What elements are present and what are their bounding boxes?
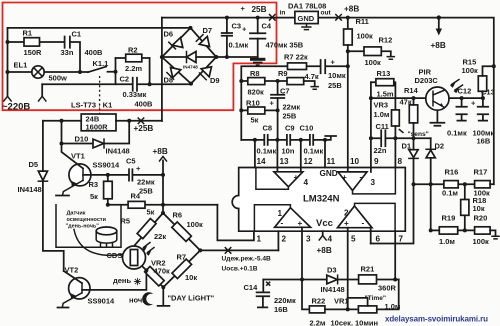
svg-text:R3: R3 <box>89 180 99 189</box>
wire: +25V vertical from bridge left corner <box>161 18 163 121</box>
junction dots mains <box>6 40 10 44</box>
svg-text:C9: C9 <box>285 124 295 133</box>
svg-text:1: 1 <box>278 209 283 218</box>
pin 13 <box>276 140 278 172</box>
resistor R2 <box>116 57 150 59</box>
svg-text:1600R: 1600R <box>86 123 109 132</box>
svg-text:R17: R17 <box>474 168 488 177</box>
pin 3 <box>301 227 303 279</box>
svg-text:+8В: +8В <box>431 41 446 50</box>
sensor cylinder <box>96 231 117 243</box>
resistor R7 <box>241 66 320 140</box>
pin 8 <box>394 138 396 167</box>
svg-text:10к: 10к <box>473 204 485 213</box>
svg-text:"sens": "sens" <box>408 131 429 138</box>
svg-text:10: 10 <box>350 157 360 166</box>
svg-text:D1: D1 <box>402 142 412 151</box>
switch K1.1 <box>88 67 116 73</box>
transistor VT2 SS9014 <box>69 278 90 299</box>
svg-text:4.7к: 4.7к <box>305 72 319 81</box>
svg-text:12: 12 <box>304 157 314 166</box>
svg-text:D10: D10 <box>75 135 89 144</box>
svg-text:+: + <box>241 4 246 13</box>
capacitor C12 <box>456 98 466 121</box>
svg-text:"день-ночь": "день-ночь" <box>66 224 100 230</box>
svg-text:33n: 33n <box>61 48 74 57</box>
pin 11 <box>324 140 326 168</box>
svg-text:D2: D2 <box>435 142 445 151</box>
+8V feed arrow <box>437 15 441 19</box>
op-amp U1.4 <box>274 172 303 187</box>
svg-text:10мин: 10мин <box>355 319 378 326</box>
ground (VT2 emitter) <box>58 307 69 309</box>
svg-text:D5: D5 <box>29 160 39 169</box>
svg-text:D9: D9 <box>210 76 220 85</box>
pin 1 <box>217 205 254 241</box>
connector X after out <box>336 15 342 21</box>
svg-text:100к: 100к <box>462 66 479 75</box>
diode D6 <box>173 38 183 48</box>
pin 14 <box>254 140 256 168</box>
svg-text:+25В: +25В <box>134 124 154 133</box>
mains plug prongs ~220B <box>4 96 11 101</box>
potentiometer VR1 <box>358 306 376 313</box>
resistor R18 <box>464 184 466 230</box>
svg-text:+: + <box>294 173 299 182</box>
svg-text:D6: D6 <box>164 30 174 39</box>
wire: top AC wire to bridge top <box>8 27 191 29</box>
svg-text:25В: 25В <box>139 187 153 196</box>
diode D3 <box>263 279 398 281</box>
capacitor C7 <box>277 81 279 140</box>
svg-text:2: 2 <box>344 209 349 218</box>
svg-text:6: 6 <box>376 235 381 244</box>
relay K1 coil <box>81 114 116 131</box>
svg-text:5к: 5к <box>90 192 98 201</box>
svg-text:R8: R8 <box>250 69 260 78</box>
svg-text:GND: GND <box>320 169 338 178</box>
svg-text:C8: C8 <box>263 124 273 133</box>
svg-text:3: 3 <box>371 178 376 187</box>
svg-text:Vcc: Vcc <box>316 218 333 229</box>
svg-text:5к: 5к <box>251 116 259 125</box>
relay actuator dashed link <box>99 76 101 114</box>
resistor R6 <box>172 222 192 242</box>
svg-text:470мк 35В: 470мк 35В <box>266 41 304 50</box>
svg-text:C2: C2 <box>120 75 130 84</box>
svg-text:400В: 400В <box>85 48 104 57</box>
svg-text:R21: R21 <box>361 265 375 274</box>
photoresistor CDS <box>123 246 146 269</box>
svg-text:-: - <box>360 172 363 181</box>
svg-text:0.33мк: 0.33мк <box>123 90 147 99</box>
svg-text:IN4148: IN4148 <box>106 147 130 156</box>
svg-text:47к: 47к <box>400 98 412 107</box>
wire: R1-C1 snubber branch <box>8 42 81 72</box>
diode D1 <box>371 138 414 243</box>
wire: VT1 base node <box>83 174 163 176</box>
svg-text:день: день <box>113 276 131 285</box>
resistor R13 <box>371 82 396 110</box>
svg-text:R20: R20 <box>474 214 488 223</box>
svg-text:Датчик: Датчик <box>67 211 86 217</box>
svg-text:10n: 10n <box>282 147 295 156</box>
resistor R15 <box>478 76 486 91</box>
svg-text:VR1: VR1 <box>334 297 349 306</box>
svg-text:16В: 16В <box>477 137 491 146</box>
diode D10 <box>62 121 130 144</box>
op-amp U1.2 <box>338 206 373 228</box>
resistor R7b bridge <box>172 259 192 279</box>
svg-text:R6: R6 <box>173 211 183 220</box>
resistor R10 <box>239 108 243 112</box>
svg-text:~220В: ~220В <box>2 102 30 113</box>
wire: bridge minus to filter ground <box>216 56 257 58</box>
svg-text:✳: ✳ <box>134 277 143 288</box>
svg-text:R13: R13 <box>377 69 391 78</box>
diode D8 <box>171 68 181 78</box>
svg-text:+8В: +8В <box>344 5 359 14</box>
capacitor C13 <box>478 98 488 121</box>
capacitor C8 <box>264 135 267 145</box>
resistor R5 <box>137 219 156 239</box>
svg-text:4: 4 <box>328 235 333 244</box>
svg-text:22мк: 22мк <box>137 178 155 187</box>
svg-text:R11: R11 <box>356 17 369 26</box>
svg-text:R1: R1 <box>23 29 33 38</box>
svg-text:R12: R12 <box>379 36 393 45</box>
svg-text:R7 22к: R7 22к <box>284 53 308 62</box>
resistor R4 <box>108 204 218 206</box>
svg-text:+: + <box>342 173 347 182</box>
svg-text:VR3: VR3 <box>374 101 389 110</box>
svg-text:150R: 150R <box>24 48 43 57</box>
svg-text:25В: 25В <box>283 112 297 121</box>
svg-text:8: 8 <box>398 157 403 166</box>
svg-text:+: + <box>344 219 349 228</box>
pin 2 <box>277 231 279 250</box>
svg-text:500w: 500w <box>49 74 68 83</box>
svg-text:400В: 400В <box>135 100 154 109</box>
svg-text:-: - <box>281 218 284 227</box>
svg-text:R22: R22 <box>312 297 326 306</box>
svg-text:2.2m: 2.2m <box>125 64 142 73</box>
svg-text:C7: C7 <box>280 87 290 96</box>
day-night bridge: top node <box>135 213 201 287</box>
light arrows into PIR <box>452 80 463 91</box>
svg-text:10к: 10к <box>185 273 197 282</box>
svg-text:470к: 470к <box>154 267 171 276</box>
svg-text:2.2м: 2.2м <box>310 319 326 326</box>
light arrows into CDS <box>144 243 155 253</box>
connector X marks on +25V rail <box>270 15 276 21</box>
svg-text:22к: 22к <box>154 232 166 241</box>
svg-text:LM324N: LM324N <box>303 194 340 205</box>
wire: lamp line <box>8 71 89 73</box>
svg-text:R14: R14 <box>404 86 419 95</box>
wire: comparator output to bridge with X <box>200 249 278 251</box>
op-amp U1.3 <box>338 172 367 191</box>
svg-text:+8В: +8В <box>153 147 168 156</box>
resistor R8 <box>239 79 243 83</box>
capacitor C14 <box>257 280 270 308</box>
svg-text:14: 14 <box>257 157 267 166</box>
svg-text:D203C: D203C <box>415 76 439 85</box>
op-amp IC U1 LM324N body <box>232 168 405 232</box>
svg-text:13: 13 <box>280 157 290 166</box>
svg-text:-: - <box>278 172 281 181</box>
wire: R13 left to pin9 column <box>370 82 372 167</box>
svg-text:100к: 100к <box>357 32 374 41</box>
svg-text:+: + <box>471 99 476 108</box>
resistor R11 <box>346 16 350 20</box>
svg-text:9: 9 <box>374 157 379 166</box>
svg-text:"DAY LiGHT": "DAY LiGHT" <box>168 294 215 303</box>
svg-text:+: + <box>331 58 336 67</box>
svg-text:R16: R16 <box>445 168 459 177</box>
wire: R14/PIR line <box>371 97 426 99</box>
node: phase rail left vertical <box>7 28 9 97</box>
svg-text:100к: 100к <box>187 220 204 229</box>
resistor R3 <box>107 175 109 181</box>
svg-text:5к: 5к <box>147 208 155 217</box>
svg-text:C11: C11 <box>376 122 389 131</box>
wire: PIR right to caps <box>449 97 483 99</box>
pin 6 <box>370 228 372 244</box>
svg-text:4: 4 <box>304 178 309 187</box>
svg-text:IN4148: IN4148 <box>321 285 345 294</box>
svg-text:C5: C5 <box>126 157 136 166</box>
ground (PIR) <box>430 110 444 126</box>
svg-text:освещенности: освещенности <box>67 217 106 223</box>
svg-text:"Time": "Time" <box>365 295 387 302</box>
svg-text:R19: R19 <box>442 214 456 223</box>
capacitor C4 <box>257 18 259 57</box>
zener IN4748 <box>162 56 216 58</box>
photo sensor box <box>56 205 121 248</box>
resistor R16 <box>414 183 475 185</box>
svg-text:+: + <box>136 164 141 173</box>
capacitor C5 <box>129 169 132 180</box>
svg-text:1.0м: 1.0м <box>439 237 455 246</box>
svg-text:in: in <box>280 10 286 17</box>
svg-text:R4: R4 <box>131 192 141 201</box>
capacitor C1 <box>65 37 70 48</box>
pointer to CDS <box>74 230 123 256</box>
svg-text:+: + <box>270 99 275 108</box>
capacitor C3 <box>226 18 228 57</box>
svg-text:0.1мк: 0.1мк <box>257 147 277 156</box>
pin 7 <box>394 231 396 279</box>
svg-text:CDS: CDS <box>107 251 123 260</box>
svg-text:7: 7 <box>399 235 404 244</box>
svg-text:D3: D3 <box>327 266 337 275</box>
lamp EL1 <box>32 66 44 78</box>
svg-text:22n: 22n <box>374 146 387 155</box>
svg-text:VT2: VT2 <box>65 266 79 275</box>
svg-text:R7: R7 <box>177 253 187 262</box>
wire: relay left feed <box>43 120 81 122</box>
svg-text:R10: R10 <box>246 99 260 108</box>
svg-text:SS9014: SS9014 <box>93 161 121 170</box>
resistor R21 <box>359 275 377 284</box>
svg-text:-: - <box>362 218 365 227</box>
ground (filter) <box>250 58 265 61</box>
svg-text:25В: 25В <box>328 81 342 90</box>
diode D5 <box>43 121 64 271</box>
capacitor C2 <box>42 83 191 85</box>
svg-text:3: 3 <box>306 235 311 244</box>
wire: decoupling caps row <box>241 136 336 140</box>
ground (VT1 emitter) <box>56 195 69 197</box>
svg-text:C14: C14 <box>244 283 259 292</box>
resistor R22 <box>302 280 358 310</box>
svg-text:xdelaysam-svoimirukami.ru: xdelaysam-svoimirukami.ru <box>385 315 488 324</box>
svg-text:C10: C10 <box>300 124 314 133</box>
svg-text:K1.1: K1.1 <box>93 59 109 68</box>
capacitor C11 <box>369 136 373 140</box>
svg-text:Uдеж.реж.-5.4В: Uдеж.реж.-5.4В <box>222 256 272 263</box>
svg-text:820к: 820к <box>248 88 265 97</box>
resistor R1 <box>24 38 40 46</box>
svg-text:+: + <box>242 25 247 34</box>
moon symbol <box>142 292 153 305</box>
svg-text:IN4748: IN4748 <box>183 65 198 70</box>
resistor R14 <box>409 105 417 123</box>
svg-text:10мк: 10мк <box>328 71 346 80</box>
svg-text:EL1: EL1 <box>14 61 28 70</box>
capacitor C6 <box>321 60 348 73</box>
wire: R2/C2 side verticals <box>116 58 150 84</box>
svg-text:220мк: 220мк <box>274 296 296 305</box>
capacitor C10 <box>310 135 313 145</box>
svg-text:1.0м: 1.0м <box>374 110 390 119</box>
pin 12 <box>300 140 302 172</box>
ground (regulator) <box>302 24 311 30</box>
pin 5 <box>347 228 349 310</box>
svg-text:1: 1 <box>257 235 262 244</box>
svg-text:22мк: 22мк <box>283 103 301 112</box>
svg-text:VT1: VT1 <box>71 152 85 161</box>
svg-text:360R: 360R <box>378 284 397 293</box>
resistor R20 <box>475 227 491 234</box>
svg-text:0.1мк: 0.1мк <box>229 41 249 50</box>
svg-text:R2: R2 <box>128 46 138 55</box>
resistor R9 <box>276 79 280 83</box>
svg-text:C3: C3 <box>232 22 242 31</box>
svg-text:25В: 25В <box>252 5 267 14</box>
wire: relay right to +25V with X <box>116 120 162 122</box>
PIR sensor D203C <box>426 87 449 110</box>
diode D9 <box>201 67 211 77</box>
svg-text:out: out <box>321 10 332 17</box>
svg-text:1.0м: 1.0м <box>385 302 401 311</box>
svg-text:1.5m: 1.5m <box>377 90 394 99</box>
diode D2 <box>430 138 432 230</box>
svg-text:D7: D7 <box>203 26 213 35</box>
svg-text:C4: C4 <box>262 22 272 31</box>
svg-text:5: 5 <box>351 235 356 244</box>
diode D7 <box>199 36 209 46</box>
resistor R12 <box>346 49 350 53</box>
potentiometer VR2 <box>145 266 165 286</box>
pin 9 <box>370 168 372 172</box>
svg-text:GND: GND <box>298 14 315 23</box>
wire: neutral prong drop <box>41 84 43 96</box>
ground (bridge bottom) <box>158 287 170 306</box>
svg-text:IN4148: IN4148 <box>18 185 42 194</box>
svg-text:10сек.: 10сек. <box>331 319 354 326</box>
svg-text:100к: 100к <box>473 237 490 246</box>
svg-text:0.1м: 0.1м <box>442 189 458 198</box>
svg-text:100к: 100к <box>365 58 382 67</box>
resistor R19 <box>431 229 475 231</box>
svg-text:Uосв.+0.1В: Uосв.+0.1В <box>222 266 258 273</box>
potentiometer VR3 <box>392 110 400 126</box>
wire: +25V top rail <box>162 18 494 185</box>
svg-text:D8: D8 <box>164 76 174 85</box>
svg-text:R5: R5 <box>121 217 131 226</box>
svg-text:0.1мк: 0.1мк <box>447 129 467 138</box>
svg-text:C1: C1 <box>72 30 82 39</box>
transistor VT1 SS9014 <box>69 164 91 186</box>
diode bridge D6 D7 D8 D9 with zener IN4748 <box>160 26 220 86</box>
svg-text:16В: 16В <box>274 305 288 314</box>
svg-text:+8В: +8В <box>317 246 332 255</box>
resistor R17 <box>475 181 491 188</box>
svg-text:11: 11 <box>327 157 336 166</box>
red mains-section border <box>3 3 277 111</box>
svg-text:0.1мк: 0.1мк <box>304 147 324 156</box>
pin 4 Vcc +8V <box>322 231 324 235</box>
pin 10 <box>347 168 349 172</box>
svg-text:C12: C12 <box>458 87 472 96</box>
op-amp U1.1 <box>275 208 311 228</box>
svg-text:2: 2 <box>282 235 287 244</box>
svg-text:LS-T73 : K1: LS-T73 : K1 <box>71 101 112 110</box>
capacitor C9 <box>287 135 290 145</box>
svg-text:R9: R9 <box>278 69 288 78</box>
svg-text:SS9014: SS9014 <box>88 297 116 306</box>
